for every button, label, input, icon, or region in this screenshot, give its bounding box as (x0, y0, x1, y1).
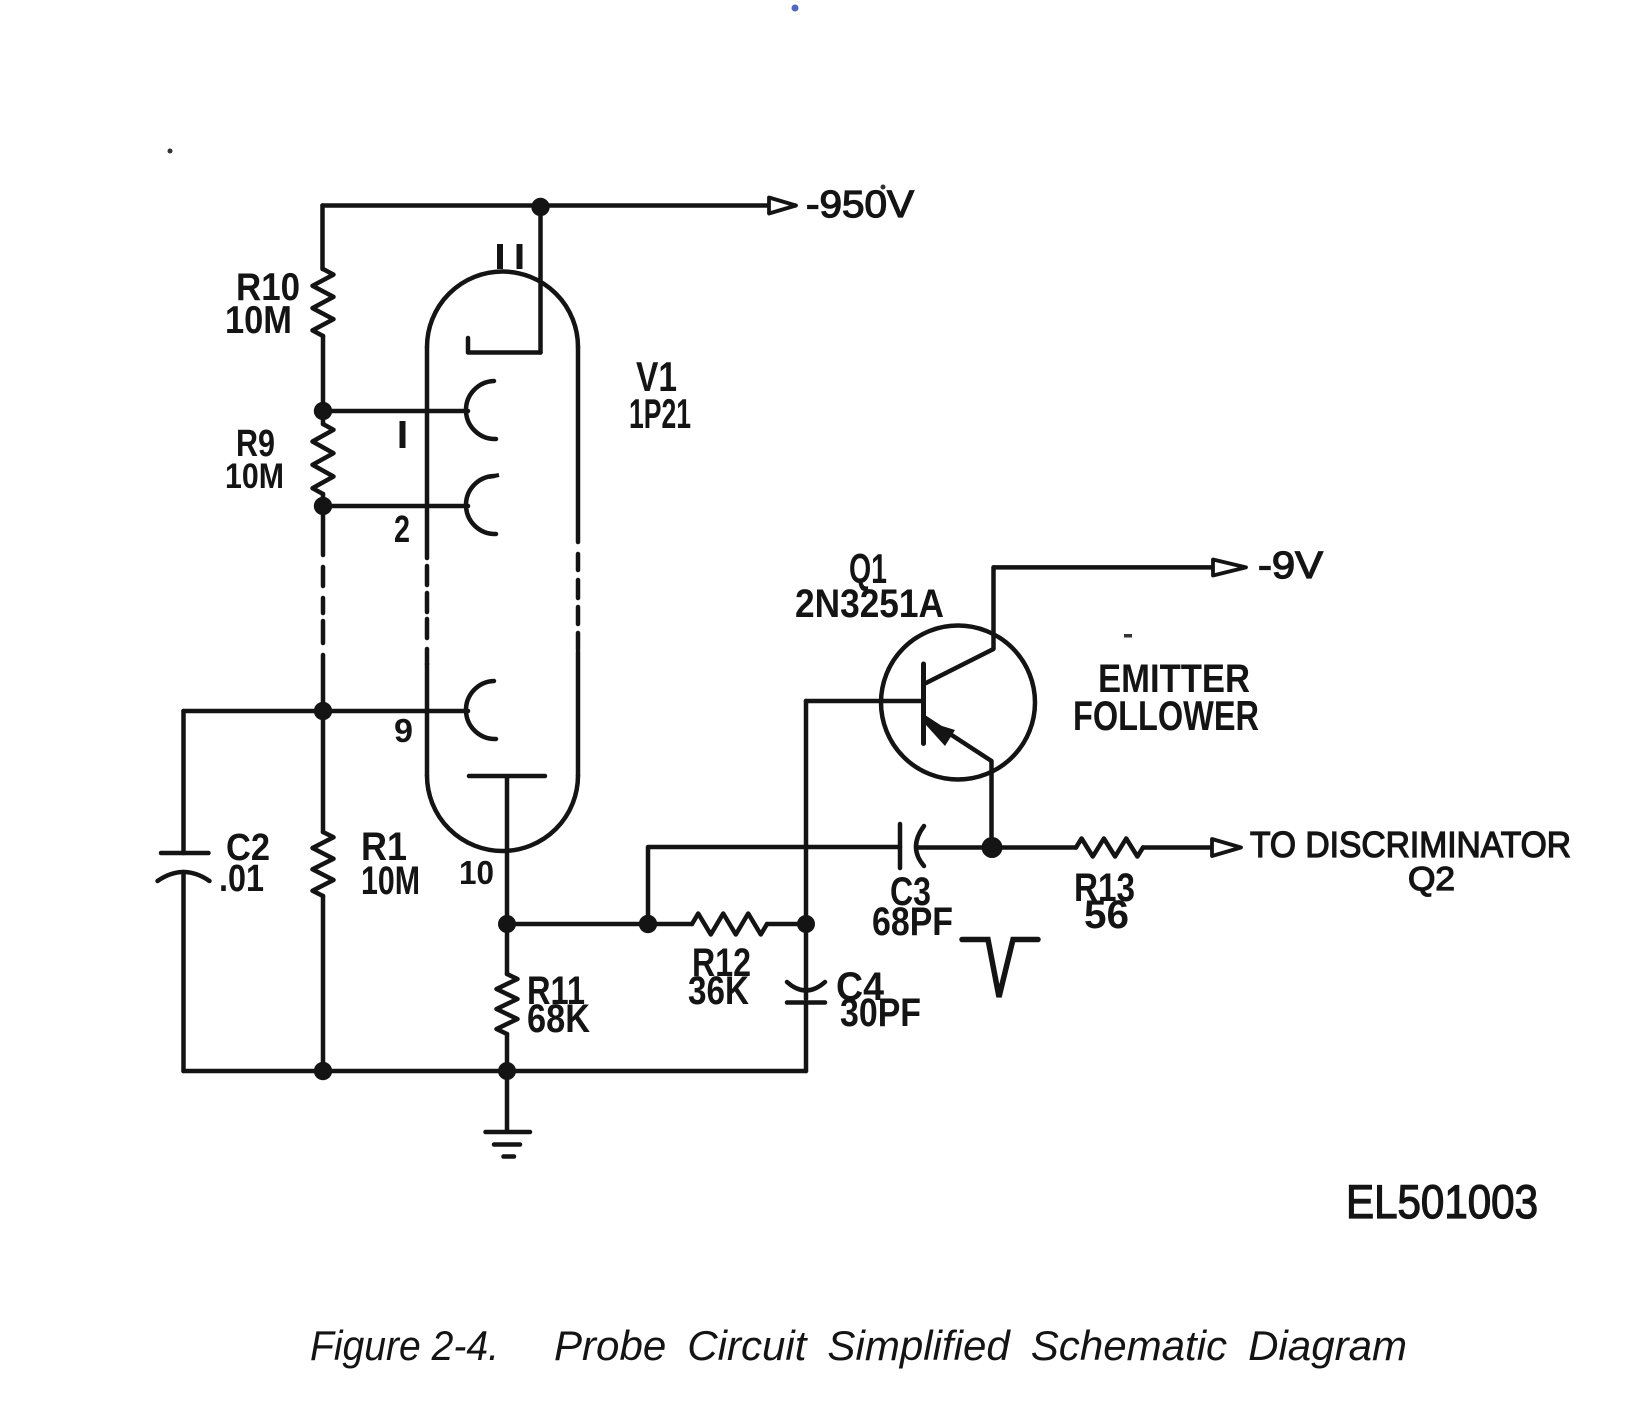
dynode pin 2 (466, 476, 496, 534)
transistor Q1 collector (926, 567, 994, 683)
svg-text:2: 2 (394, 509, 410, 551)
wire pin10 to node A (505, 851, 510, 924)
pin 1 (400, 421, 406, 448)
node R1 bottom junction (314, 1062, 332, 1080)
wire R13 to output arrow (1143, 845, 1212, 850)
capacitor C4 (804, 924, 809, 999)
svg-text:-950V: -950V (806, 184, 915, 226)
svg-text:FOLLOWER: FOLLOWER (1073, 692, 1259, 739)
node ground rail junction (498, 1062, 516, 1080)
wire emitter node to R13 (992, 845, 1076, 850)
wire up-and-over to C3 (648, 847, 900, 924)
svg-text:30PF: 30PF (840, 991, 921, 1035)
svg-text:1P21: 1P21 (629, 390, 691, 437)
node emitter output junction (982, 837, 1003, 858)
wire C2 bottom lead (181, 872, 186, 1071)
dynode pin 1 (466, 381, 496, 439)
svg-text:68PF: 68PF (872, 900, 953, 944)
wire left rail top (to R10) (320, 206, 325, 270)
tube envelope bottom arc (427, 776, 578, 852)
svg-text:-9V: -9V (1258, 545, 1324, 587)
node A (dynode 10 node) (498, 915, 516, 933)
resistor R9 (313, 424, 334, 494)
wire C4 bottom lead (804, 1003, 809, 1072)
capacitor C2 (161, 851, 209, 856)
svg-text:9: 9 (394, 712, 413, 749)
wire pin9 row to C2 branch (184, 709, 324, 714)
vacuum tube V1 envelope top arc (427, 272, 578, 348)
svg-text:Q2: Q2 (1408, 860, 1455, 897)
anode pin 10 (469, 776, 545, 851)
node Q1 base node junction (797, 915, 815, 933)
wire top rail -950V (323, 203, 796, 208)
resistor R11 (505, 924, 510, 974)
tube wall left solid top (425, 347, 430, 558)
node top rail junction (531, 198, 549, 216)
tube wall right dashed (576, 554, 581, 650)
wire ground rail (184, 1069, 807, 1074)
resistor R13 (1076, 839, 1143, 857)
wire C2 top lead (181, 711, 186, 853)
transistor Q1 base bar (921, 664, 926, 744)
wire Q1 base lead down (804, 701, 809, 924)
wire node A to R12 node (507, 922, 648, 927)
tube wall right solid bottom (576, 652, 581, 776)
plate pin 11 (468, 338, 541, 353)
svg-text:2N3251A: 2N3251A (795, 582, 944, 626)
transistor Q1 circle (881, 626, 1035, 780)
resistor R1 (313, 832, 334, 896)
wire Q1 base (806, 699, 924, 704)
arrow -9V (1213, 560, 1246, 576)
node R12 left junction (639, 915, 657, 933)
pin 11 (497, 244, 503, 269)
svg-text:Figure 2-4.: Figure 2-4. (310, 1322, 499, 1369)
waveform negative pulse (962, 940, 1038, 998)
arrow -950V (769, 198, 796, 214)
wire pin9 node down to R1 (321, 711, 326, 832)
tube wall left dashed (425, 566, 430, 664)
speck (792, 5, 799, 12)
node pin1 junction (314, 402, 332, 420)
wire R10 to node (321, 336, 326, 411)
wire C3 to emitter node (917, 845, 983, 850)
svg-text:68K: 68K (527, 997, 590, 1041)
tube wall left solid bottom (425, 664, 430, 776)
wire pin1 (323, 409, 468, 414)
dynode pin 9 (466, 681, 496, 739)
wire R1 to ground rail (321, 896, 326, 1071)
svg-text:EL501003: EL501003 (1346, 1175, 1538, 1228)
wire pin9 (323, 709, 468, 714)
svg-text:TO DISCRIMINATOR: TO DISCRIMINATOR (1250, 824, 1571, 865)
ground (505, 1071, 510, 1131)
resistor R10 (313, 269, 334, 336)
svg-text:Probe Circuit Simplified Schem: Probe Circuit Simplified Schematic Diagr… (554, 1322, 1407, 1369)
svg-text:10M: 10M (361, 859, 420, 903)
svg-text:.01: .01 (219, 858, 264, 900)
svg-text:10: 10 (459, 854, 494, 891)
capacitor C3 (898, 824, 903, 868)
transistor Q1 emitter arrow (921, 720, 955, 747)
svg-text:36K: 36K (688, 969, 749, 1013)
wire pin2 (323, 504, 468, 509)
wire -9V rail (994, 565, 1212, 570)
resistor R12 (648, 922, 692, 927)
svg-text:10M: 10M (225, 457, 284, 496)
wire pin11 to top rail (538, 207, 543, 353)
arrow to discriminator (1212, 839, 1241, 856)
wire dashed rail (omitted dynodes) (321, 506, 326, 555)
transistor Q1 emitter (926, 718, 992, 848)
svg-text:56: 56 (1084, 893, 1129, 937)
node pin9 junction (314, 702, 332, 720)
tube wall right solid top (576, 347, 581, 542)
svg-text:10M: 10M (225, 299, 292, 342)
node pin2 junction (314, 497, 332, 515)
